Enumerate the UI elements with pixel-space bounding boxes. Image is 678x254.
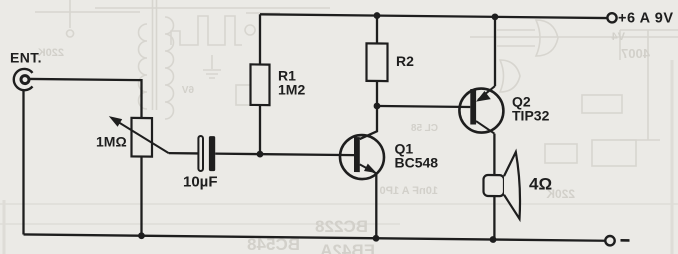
ghost gate shape right of R2 <box>497 20 558 56</box>
wire: bottom rail <box>24 234 606 240</box>
speaker LS1 cone <box>504 152 520 219</box>
ghost coil column 1 <box>139 24 148 109</box>
connector J1 inner ring <box>21 76 29 84</box>
transistor Q2 base bar <box>470 89 476 125</box>
wire: Q1 emitter to bottom rail <box>375 173 377 238</box>
wire: R2 top <box>376 16 378 44</box>
svg-text:1M2: 1M2 <box>278 82 305 98</box>
transistor Q1 circle <box>340 135 384 179</box>
svg-text:+6 A 9V: +6 A 9V <box>618 11 674 27</box>
wire: pot bottom vertical <box>140 157 142 236</box>
ghost band line top <box>35 8 678 37</box>
wire: Q2 collector to speaker and bottom rail <box>493 134 495 240</box>
minus sign <box>621 239 630 242</box>
svg-text:10µF: 10µF <box>183 174 218 191</box>
svg-text:EB42A: EB42A <box>320 241 375 254</box>
capacitor C1 positive plate <box>209 136 215 171</box>
svg-text:ENT.: ENT. <box>10 50 42 66</box>
svg-text:CL 58: CL 58 <box>411 123 438 134</box>
svg-text:1MΩ: 1MΩ <box>96 134 127 150</box>
node: Q1 emitter/bottom-rail junction <box>373 235 380 242</box>
transistor Q2 circle <box>459 88 503 132</box>
node: Q2 emitter/top-rail junction <box>492 13 499 20</box>
svg-text:V4: V4 <box>611 31 625 43</box>
wire: Q2 emitter to top rail <box>494 17 496 86</box>
ghost circle right of square wave <box>245 13 280 35</box>
capacitor C1 negative plate <box>198 136 203 171</box>
node: pot/bottom-rail junction <box>138 232 145 239</box>
ghost IC outline right <box>620 30 678 140</box>
ghost band lines bottom <box>0 203 678 205</box>
ghost wire and circle top-left <box>67 0 74 37</box>
svg-text:6V: 6V <box>181 85 194 96</box>
resistor R2 <box>367 43 388 81</box>
transistor Q1 base bar <box>354 137 360 172</box>
svg-text:4Ω: 4Ω <box>529 175 552 194</box>
wire: wiper to capacitor <box>169 152 198 155</box>
svg-text:R2: R2 <box>396 53 414 69</box>
node: speaker/bottom-rail junction <box>490 236 497 243</box>
ghost transformer bar <box>153 0 157 110</box>
svg-text:BC548: BC548 <box>395 155 439 171</box>
terminal: minus <box>605 236 614 246</box>
ghost small rects right <box>545 144 577 163</box>
node: R1/signal junction <box>257 151 264 158</box>
svg-text:10nF A 1P0: 10nF A 1P0 <box>380 185 439 197</box>
wire: R2 bottom to Q1 collector <box>360 81 377 139</box>
node: R2/top-rail junction <box>374 12 381 19</box>
ghost mirrored texts <box>38 31 650 254</box>
wire: R1 top vertical <box>259 14 261 64</box>
transistor Q1 emitter <box>360 164 377 173</box>
wire: ENT to pot top <box>30 79 142 118</box>
wire: ENT down to bottom rail <box>22 91 24 235</box>
svg-text:BC228: BC228 <box>315 217 368 236</box>
svg-text:TIP32: TIP32 <box>512 108 550 124</box>
node: R2/Q2-base junction <box>374 103 381 110</box>
ghost ground symbol <box>203 55 221 78</box>
ghost coil column 2 <box>165 17 174 119</box>
ghost square wave <box>171 16 242 45</box>
wire: capacitor to Q1 base <box>215 154 354 156</box>
transistor Q2 collector <box>476 121 494 133</box>
resistor R1 <box>251 64 270 105</box>
terminal: +6A9V <box>607 13 616 22</box>
transistor Q2 emitter <box>478 86 495 100</box>
potentiometer P1 body <box>132 118 153 157</box>
wire: R1 bottom vertical <box>259 105 261 154</box>
ghost rect mid <box>236 85 262 105</box>
svg-text:4007: 4007 <box>621 46 650 61</box>
potentiometer wiper arrow <box>119 122 169 153</box>
wire: top rail <box>260 14 607 18</box>
speaker LS1 box <box>484 175 505 196</box>
wire: junction to Q2 base <box>377 106 470 107</box>
connector J1 ENT outer arc <box>14 69 33 90</box>
